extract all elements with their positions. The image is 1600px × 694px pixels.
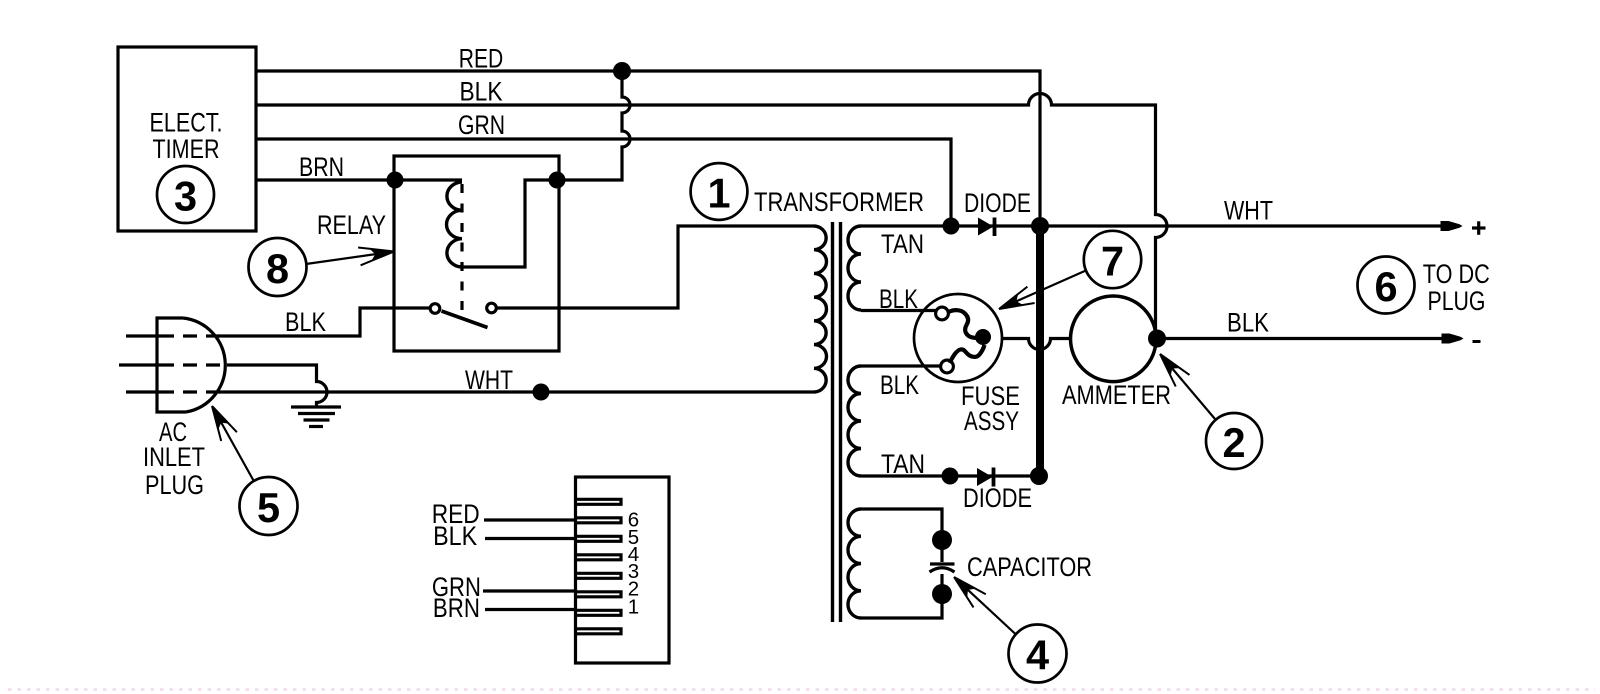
wire GRN (timer down to transformer TAN node) (256, 139, 951, 219)
callout 3 (timer) (157, 166, 214, 223)
wire relay switch to transformer primary top (497, 226, 814, 308)
callout 2 with arrow to ammeter output (1160, 354, 1262, 469)
ground (291, 407, 341, 427)
callout 4 with arrow to capacitor (954, 577, 1067, 683)
svg-text:BLK: BLK (433, 521, 477, 551)
transformer secondary winding B (BLK-TAN) (848, 366, 861, 476)
transformer primary winding (814, 226, 826, 392)
label CAPACITOR (967, 552, 1092, 582)
pin numbers 6-1 (628, 509, 639, 619)
wire TAN-diode-WHT output (861, 224, 1443, 227)
label BLK (sec A) (879, 284, 918, 314)
svg-text:4: 4 (1026, 632, 1049, 679)
connector comb fingers (577, 499, 621, 634)
label DIODE (top) (964, 188, 1031, 218)
capacitor dot top (932, 530, 952, 550)
svg-text:TRANSFORMER: TRANSFORMER (754, 187, 924, 217)
label RED (connector) (432, 499, 480, 529)
AC inlet plug body (157, 318, 225, 412)
label AMMETER (1062, 380, 1171, 410)
junction dot ammeter output (1148, 330, 1166, 348)
svg-text:5: 5 (257, 484, 280, 531)
minus sign (1473, 340, 1481, 343)
label AC INLET PLUG (143, 417, 205, 500)
capacitor C1 plates (930, 564, 955, 572)
callout 5 with arrow to plug (212, 406, 298, 535)
fuse assy circle (914, 294, 1002, 382)
BLK output wire (1157, 337, 1443, 340)
junction dot RED/relay drop (613, 62, 631, 80)
label GRN (458, 110, 505, 140)
label BLK (output) (1227, 308, 1269, 338)
svg-text:TO DC: TO DC (1423, 259, 1490, 289)
junction dot relay right (549, 172, 566, 189)
connector wire BLK (485, 537, 576, 540)
relay switch right contact (487, 303, 497, 313)
wire RED (timer to top-right corner, drops to diode node) (256, 71, 1040, 217)
callout 6 (to DC plug) (1358, 257, 1415, 314)
connector wire GRN (483, 589, 576, 592)
callout 8 with arrow to relay (249, 238, 395, 296)
relay coil (447, 182, 462, 267)
AC line WHT wire (plug to transformer primary bottom) (126, 390, 814, 393)
svg-text:INLET: INLET (143, 442, 205, 472)
connector J1 body (576, 477, 670, 663)
fuse wire BLK top into assy (861, 309, 936, 312)
label TO DC PLUG (1423, 259, 1490, 316)
label FUSE ASSY (961, 381, 1020, 436)
connector wire BRN (485, 608, 576, 611)
transformer secondary winding A (TAN-BLK) (848, 226, 861, 310)
svg-text:6: 6 (1374, 263, 1397, 310)
label WHT (output) (1224, 196, 1273, 226)
transformer core (833, 222, 841, 622)
capacitor dot bottom (932, 584, 952, 604)
plus sign (1472, 221, 1486, 235)
fuse wire BLK bottom into assy (861, 364, 941, 367)
fuse element squiggle bottom (950, 345, 985, 363)
DC bus thick wire (1036, 226, 1044, 476)
label GRN (connector) (432, 572, 481, 602)
transformer winding C (capacitor) (848, 509, 861, 618)
fuse terminal bottom (941, 360, 954, 373)
svg-text:7: 7 (1101, 238, 1124, 285)
elect. timer box (118, 47, 256, 231)
label BLK (connector) (433, 521, 477, 551)
relay armature dashed link (460, 184, 463, 315)
diode D1 (978, 218, 995, 237)
label WHT (ac line) (465, 365, 513, 395)
svg-text:TAN: TAN (881, 229, 924, 259)
svg-text:CAPACITOR: CAPACITOR (967, 552, 1092, 582)
svg-text:PLUG: PLUG (145, 470, 204, 500)
svg-text:BLK: BLK (880, 370, 919, 400)
svg-text:PLUG: PLUG (1428, 286, 1486, 316)
svg-text:8: 8 (266, 245, 289, 292)
svg-text:3: 3 (174, 173, 197, 220)
svg-text:AMMETER: AMMETER (1062, 380, 1171, 410)
junction dot diode node bottom (1030, 467, 1048, 485)
ammeter circle (1071, 296, 1157, 382)
fuse element squiggle top (948, 310, 978, 338)
svg-text:BLK: BLK (285, 307, 326, 337)
svg-text:ELECT.: ELECT. (150, 108, 223, 138)
scan artifact dotted line (8, 688, 1595, 691)
svg-text:1: 1 (707, 170, 730, 217)
BLK output arrow (1442, 334, 1464, 344)
svg-text:WHT: WHT (465, 365, 513, 395)
label RELAY (317, 210, 386, 240)
relay box (394, 156, 559, 351)
connector wire RED (484, 518, 576, 521)
AC line BLK wire (plug to relay switch) (126, 308, 430, 336)
svg-text:WHT: WHT (1224, 196, 1273, 226)
callout 7 with arrow to fuse assy (999, 231, 1141, 309)
svg-text:ASSY: ASSY (964, 406, 1019, 436)
svg-text:RED: RED (459, 44, 504, 74)
svg-text:GRN: GRN (458, 110, 505, 140)
svg-text:BLK: BLK (460, 77, 503, 107)
relay coil bottom return wire to right dot (462, 180, 557, 267)
label BRN (299, 152, 344, 182)
svg-text:BLK: BLK (1227, 308, 1269, 338)
junction dot WHT (533, 384, 550, 401)
svg-text:BRN: BRN (433, 593, 480, 623)
label BRN (connector) (433, 593, 480, 623)
WHT output arrow (1441, 221, 1463, 231)
label TAN (bottom) (881, 449, 925, 479)
svg-text:2: 2 (1222, 419, 1245, 466)
wire BRN (timer to relay coil top) (256, 178, 462, 181)
fuse terminal top (936, 307, 949, 320)
label BLK (sec B) (880, 370, 919, 400)
junction dot BRN/relay left (387, 172, 404, 189)
label TAN (top) (881, 229, 924, 259)
diode D2 (977, 468, 994, 487)
capacitor loop wires (861, 509, 942, 618)
wire relay right to RED drop (with hops over BLK and GRN) (557, 71, 630, 180)
relay switch left contact (430, 304, 440, 314)
svg-text:TIMER: TIMER (153, 134, 220, 164)
label DIODE (bottom) (963, 483, 1032, 513)
svg-text:RELAY: RELAY (317, 210, 386, 240)
junction dot TAN/GRN (943, 218, 960, 235)
label BLK (ac line) (285, 307, 326, 337)
svg-text:DIODE: DIODE (964, 188, 1031, 218)
svg-text:1: 1 (628, 596, 639, 619)
wire TAN bottom to diode node (861, 474, 1040, 477)
fuse assy wire to ammeter (hop over bus) (983, 339, 1069, 350)
junction dot TAN bottom (942, 468, 959, 485)
AC line middle wire to ground (119, 365, 327, 406)
label TRANSFORMER (754, 187, 924, 217)
relay switch arm (442, 311, 488, 328)
label RED (459, 44, 504, 74)
wire BLK (timer to WHT hop, down to ammeter output node) (256, 94, 1167, 332)
svg-text:DIODE: DIODE (963, 483, 1032, 513)
label BLK (460, 77, 503, 107)
fuse center dot (975, 329, 991, 345)
callout 1 (transformer) (691, 163, 748, 220)
svg-text:BRN: BRN (299, 152, 344, 182)
junction dot diode node top (1031, 217, 1049, 235)
